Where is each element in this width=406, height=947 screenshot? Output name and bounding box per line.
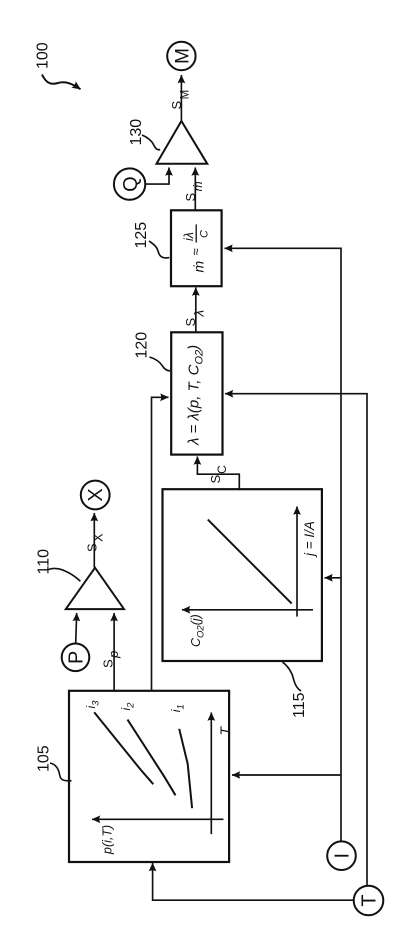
diagonal 115 <box>208 520 292 604</box>
wire Q to 130 <box>145 168 169 185</box>
label 105 <box>35 745 71 781</box>
svg-text:120: 120 <box>133 332 150 359</box>
M circle <box>167 42 195 70</box>
wire T to 105 (up then right) <box>153 863 354 900</box>
I circle <box>327 841 356 870</box>
graph 105 x-axis <box>210 713 212 835</box>
svg-text:100: 100 <box>35 42 52 69</box>
curve i3 <box>94 712 153 784</box>
wire S_X 110 to X <box>93 513 95 568</box>
label 110 <box>35 549 80 581</box>
svg-text:SX: SX <box>85 533 106 552</box>
label 115 <box>283 662 309 718</box>
svg-text:115: 115 <box>291 692 308 718</box>
svg-text:Q: Q <box>120 176 142 192</box>
wire P to 110 <box>76 613 77 643</box>
label 125 <box>133 222 169 258</box>
figure label 100 <box>35 42 81 89</box>
svg-text:p(i,T): p(i,T) <box>101 825 115 855</box>
wire I branch to 105 <box>232 774 341 776</box>
svg-text:C: C <box>199 230 211 238</box>
amp 110 <box>66 568 124 609</box>
wire S_p 105 to 110 <box>113 613 115 691</box>
P circle <box>62 644 90 672</box>
svg-text:I: I <box>332 853 354 859</box>
svg-text:105: 105 <box>35 745 52 772</box>
block 105 (p(i,T) map) <box>69 691 229 862</box>
svg-text:T: T <box>217 726 233 736</box>
svg-text:λ = λ(p, T, CO2): λ = λ(p, T, CO2) <box>186 345 206 446</box>
wire T to 120 (right then up) <box>225 394 367 886</box>
wire p: 105 to 120 (right then down) <box>152 397 169 691</box>
svg-text:P: P <box>66 651 88 664</box>
svg-text:130: 130 <box>128 119 145 146</box>
svg-text:Sṁ: Sṁ <box>183 181 205 201</box>
label 120 <box>133 332 170 371</box>
svg-text:i2: i2 <box>119 702 137 711</box>
block 125 (mdot) <box>171 210 222 286</box>
curve i2 <box>128 720 176 796</box>
block 120 (lambda) <box>171 332 222 454</box>
svg-text:Sp: Sp <box>101 651 122 668</box>
svg-text:T: T <box>359 894 381 906</box>
graph 105 y-axis <box>92 818 224 820</box>
svg-text:CO2(j): CO2(j) <box>189 614 207 647</box>
svg-text:i1: i1 <box>169 704 187 712</box>
wire S_C 115 to 120 <box>197 457 239 490</box>
graph 115 x-axis <box>296 507 298 617</box>
wire I main (right) <box>225 248 342 841</box>
block 115 (CO2 map) <box>163 489 322 661</box>
svg-text:j = I/A: j = I/A <box>302 521 317 558</box>
rotated landscape drawing <box>35 42 384 916</box>
svg-text:110: 110 <box>35 549 52 575</box>
X circle <box>81 481 110 510</box>
wire S_lambda 120 to 125 <box>195 288 197 333</box>
svg-text:SM: SM <box>169 90 192 110</box>
graph 115 y-axis <box>182 609 313 611</box>
formula mdot <box>182 224 211 272</box>
wire S_M 130 to M <box>180 75 182 121</box>
svg-text:≈: ≈ <box>188 248 203 255</box>
svg-text:ṁ: ṁ <box>191 261 207 273</box>
label 130 <box>128 119 160 150</box>
amp 130 <box>157 121 208 164</box>
T circle <box>354 886 384 916</box>
wire S_mdot 125 to 130 <box>194 168 196 211</box>
curve i1 <box>179 729 192 808</box>
svg-text:iλ: iλ <box>182 232 196 241</box>
Q circle <box>114 168 145 199</box>
svg-text:M: M <box>172 48 193 64</box>
svg-text:Sλ: Sλ <box>183 310 207 327</box>
svg-text:X: X <box>85 488 107 501</box>
svg-text:i3: i3 <box>84 700 102 709</box>
svg-text:125: 125 <box>133 222 150 249</box>
wire I branch to 115 <box>325 577 342 579</box>
